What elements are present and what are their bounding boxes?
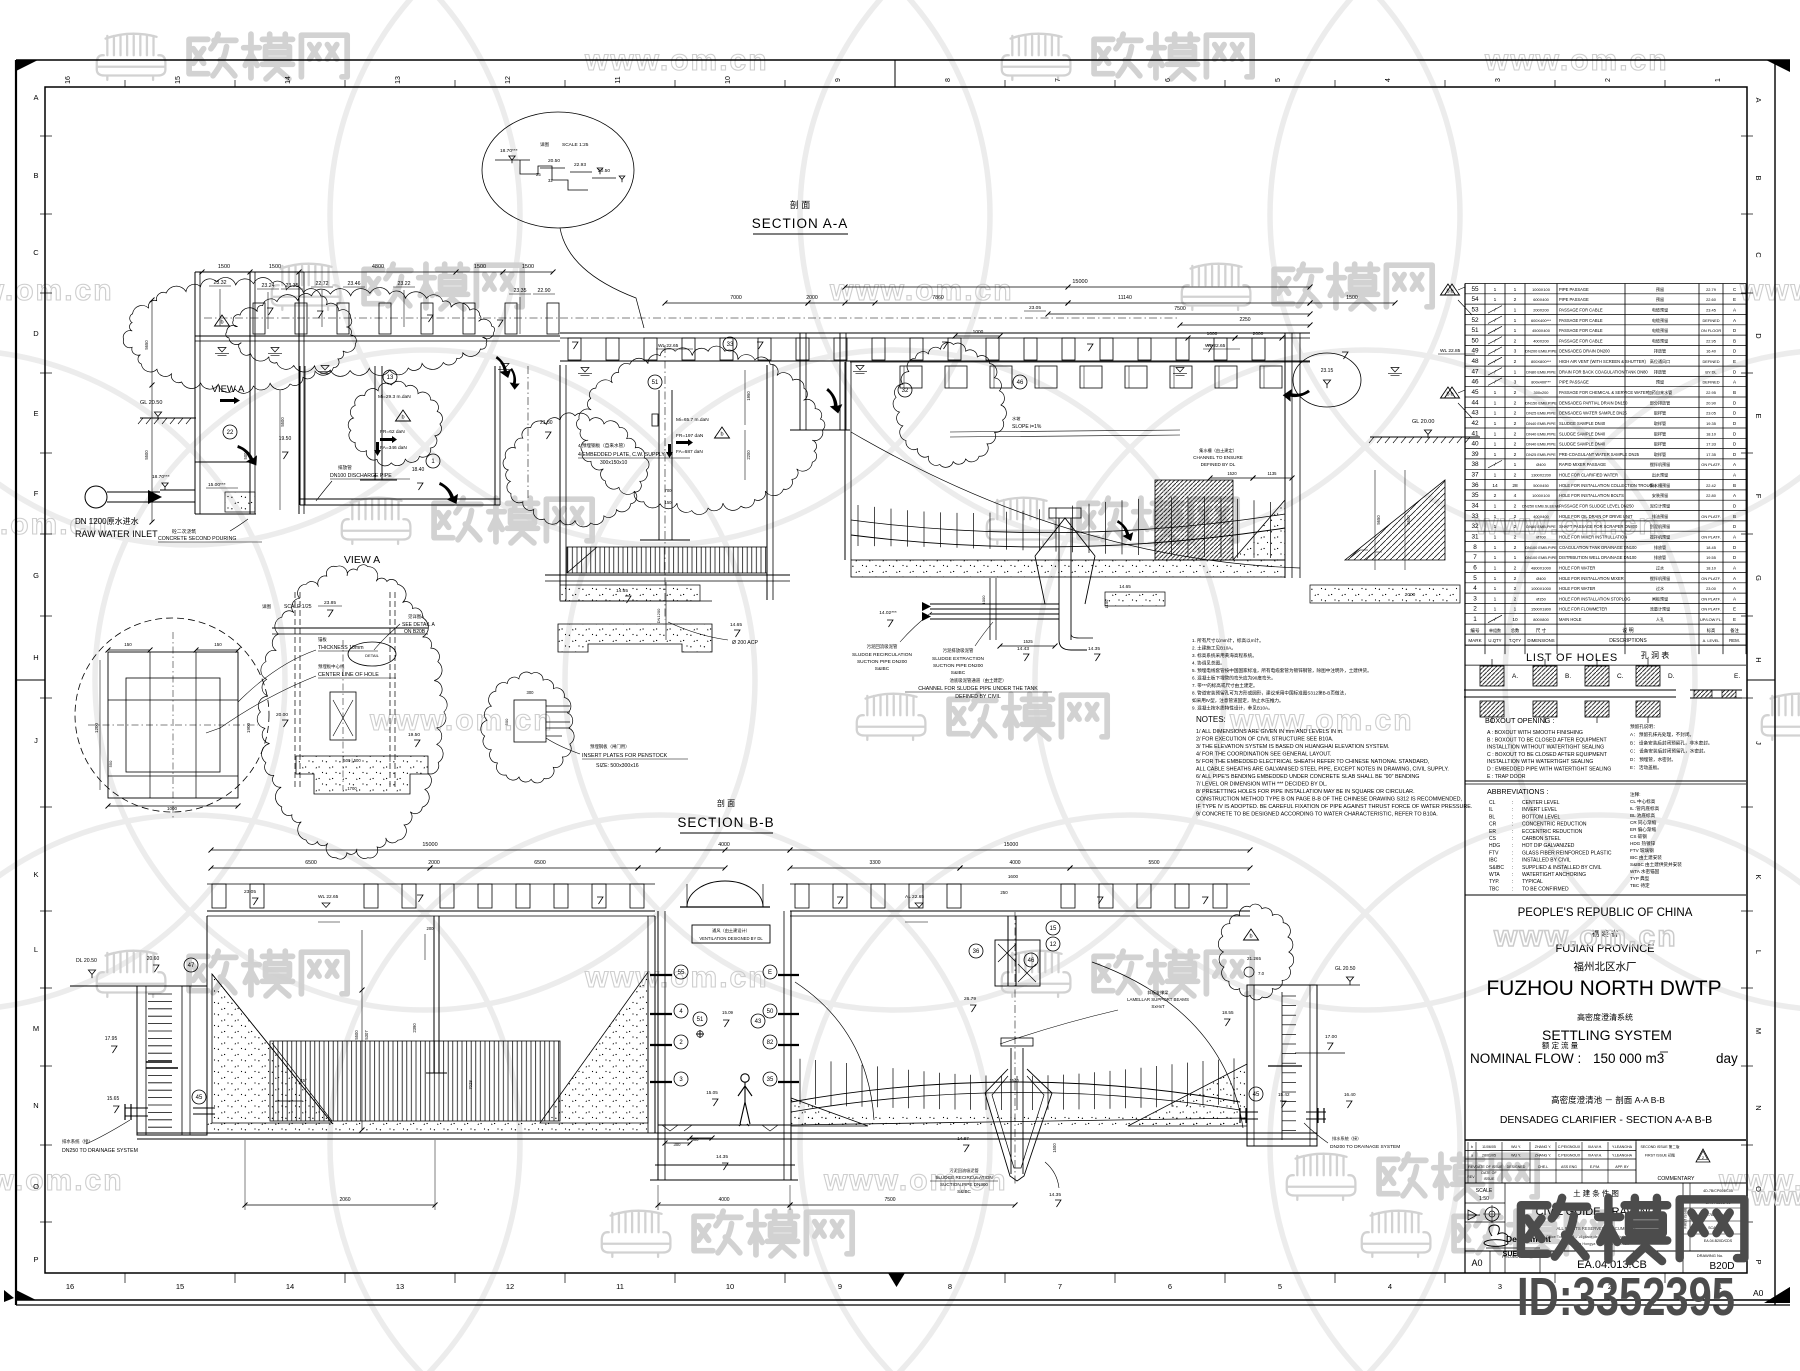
svg-text:HOLE FOR INSTALLATION BOLTS: HOLE FOR INSTALLATION BOLTS — [1559, 493, 1624, 498]
projection symbols — [1468, 1210, 1480, 1220]
svg-text:7500: 7500 — [884, 1197, 895, 1203]
svg-text:SEE DETAIL A: SEE DETAIL A — [402, 622, 435, 628]
svg-text:J: J — [1754, 741, 1763, 745]
outlet box weir teeth — [148, 993, 172, 995]
svg-text:HDG: HDG — [1489, 843, 1500, 849]
svg-text:取样管: 取样管 — [1654, 441, 1666, 447]
svg-text:E: E — [1733, 617, 1736, 622]
svg-text:600X400***: 600X400*** — [1531, 318, 1552, 323]
svg-text:2250: 2250 — [1239, 317, 1250, 323]
svg-text:BY DL: BY DL — [1705, 369, 1717, 374]
svg-text:7.0: 7.0 — [1258, 971, 1265, 976]
B-B mixer shaft pipe — [433, 916, 435, 1073]
svg-text:M: M — [33, 1024, 39, 1033]
svg-text:BOXOUT OPENING :: BOXOUT OPENING : — [1485, 716, 1554, 725]
svg-text:6: 6 — [1165, 78, 1172, 82]
person figure — [738, 1074, 752, 1126]
svg-text:REM.: REM. — [1729, 638, 1740, 643]
svg-text:22: 22 — [227, 430, 234, 436]
svg-text:48: 48 — [1471, 358, 1479, 365]
svg-text:DN200 EMB.PIPE: DN200 EMB.PIPE — [1525, 349, 1557, 354]
svg-text::: : — [1512, 872, 1513, 878]
table triangle marks — [1445, 284, 1460, 295]
hole type E — [1690, 689, 1742, 691]
svg-text:SCALE 1:25: SCALE 1:25 — [562, 142, 589, 148]
svg-text:ER 偏心渐缩: ER 偏心渐缩 — [1630, 826, 1656, 833]
svg-text:55: 55 — [1471, 286, 1479, 293]
svg-text:CONCENTRIC REDUCTION: CONCENTRIC REDUCTION — [1522, 822, 1587, 828]
svg-text:COMMENTARY: COMMENTARY — [1658, 1176, 1696, 1182]
svg-text:PIPE PASSAGE: PIPE PASSAGE — [1559, 380, 1589, 385]
svg-text:1: 1 — [1494, 287, 1497, 293]
svg-text:2: 2 — [1514, 586, 1517, 592]
svg-text:Y.LEANGHA: Y.LEANGHA — [1612, 1154, 1633, 1158]
svg-text:SLUDGE SAMPLE DN40: SLUDGE SAMPLE DN40 — [1559, 431, 1606, 436]
svg-text:DN80 EMB.PIPE: DN80 EMB.PIPE — [1526, 524, 1556, 529]
svg-text:SHAFT PASSAGE FOR SCRAPER DN80: SHAFT PASSAGE FOR SCRAPER DN800 — [1559, 524, 1638, 529]
svg-text:总数: 总数 — [1511, 627, 1520, 634]
svg-text:排放管: 排放管 — [1654, 544, 1666, 550]
svg-text:150: 150 — [124, 642, 132, 647]
svg-text:CONCRETE SECOND POURING: CONCRETE SECOND POURING — [158, 536, 236, 542]
svg-text:SECOND ISSUE 第二版: SECOND ISSUE 第二版 — [1641, 1144, 1680, 1149]
svg-text:2: 2 — [1514, 473, 1517, 479]
svg-text:18.55: 18.55 — [1222, 1010, 1234, 1015]
svg-text:b: b — [720, 432, 723, 438]
svg-text:INSERT PLATES FOR PENSTOCK: INSERT PLATES FOR PENSTOCK — [582, 753, 668, 759]
svg-text:7000: 7000 — [730, 295, 742, 301]
svg-text:4: 4 — [1388, 1282, 1392, 1291]
coagulation tank draft tube — [374, 366, 376, 480]
svg-text:46: 46 — [1017, 380, 1024, 386]
svg-text:www.om.cn: www.om.cn — [823, 1164, 1008, 1197]
svg-text:1: 1 — [1514, 287, 1517, 293]
svg-text:7: 7 — [1473, 554, 1477, 561]
B-B walkway posts left — [207, 883, 655, 885]
svg-text:U.QTY: U.QTY — [1488, 638, 1501, 643]
B-B left sweep arc — [795, 982, 874, 1120]
revision table — [1465, 1150, 1636, 1152]
svg-text:HDG 热镀锌: HDG 热镀锌 — [1630, 840, 1656, 847]
svg-text:REV: REV — [1467, 1175, 1475, 1179]
svg-text:b: b — [1450, 289, 1453, 295]
svg-text:7: 7 — [1055, 78, 1062, 82]
svg-text:1: 1 — [1514, 318, 1517, 324]
svg-text:DENSADEG WATER SAMPLE DN25: DENSADEG WATER SAMPLE DN25 — [1559, 411, 1628, 416]
svg-text:14.35: 14.35 — [716, 1154, 728, 1160]
svg-text:1500: 1500 — [474, 264, 486, 270]
svg-text:23.85: 23.85 — [324, 600, 336, 606]
dim chain A-A left — [202, 271, 553, 273]
svg-text:UP/LOW FL.: UP/LOW FL. — [1700, 617, 1722, 622]
svg-text:DESCRIPTIONS: DESCRIPTIONS — [1609, 638, 1647, 644]
svg-text:预埋钢板（闸门用）: 预埋钢板（闸门用） — [590, 743, 630, 750]
svg-text:1300X2200: 1300X2200 — [1531, 473, 1552, 478]
svg-text:51: 51 — [1471, 327, 1479, 334]
svg-text:WTA 水密锚固: WTA 水密锚固 — [1630, 868, 1660, 875]
svg-text:1: 1 — [1514, 328, 1517, 334]
svg-text:44: 44 — [1471, 399, 1479, 406]
svg-text:DN40 EMB.PIPE: DN40 EMB.PIPE — [1526, 421, 1556, 426]
svg-text:8: 8 — [1473, 544, 1477, 551]
svg-text:ER: ER — [1489, 829, 1496, 835]
svg-text:4500X400: 4500X400 — [1532, 328, 1551, 333]
svg-text:18.45: 18.45 — [1706, 545, 1716, 550]
view A footing stipple — [296, 756, 428, 794]
svg-text:L: L — [34, 945, 38, 954]
B-B tank floor — [137, 1132, 1317, 1134]
svg-text:Ø150: Ø150 — [1536, 596, 1546, 601]
svg-text:WATERTIGHT ANCHORING: WATERTIGHT ANCHORING — [1522, 872, 1586, 878]
svg-text:T.QTY: T.QTY — [1509, 638, 1521, 643]
svg-text:9: 9 — [835, 78, 842, 82]
right stair hatch — [1345, 480, 1445, 560]
svg-text:47: 47 — [1471, 368, 1479, 375]
svg-text::: : — [1512, 850, 1513, 856]
svg-text:800x400***: 800x400*** — [1531, 380, 1551, 385]
svg-text:DEFINED BY DL: DEFINED BY DL — [1201, 462, 1236, 467]
svg-text:16: 16 — [66, 1282, 74, 1291]
svg-text:HOT DIP GALVANIZED: HOT DIP GALVANIZED — [1522, 843, 1575, 849]
svg-text:ALL CABLE SHEATHS ARE GALVANIS: ALL CABLE SHEATHS ARE GALVANISED STEEL P… — [1196, 767, 1449, 773]
svg-text:32: 32 — [548, 178, 553, 183]
svg-text:1900: 1900 — [246, 722, 251, 733]
svg-text:22.95: 22.95 — [1706, 390, 1716, 395]
svg-text:9: 9 — [838, 1282, 842, 1291]
svg-text:1: 1 — [1494, 524, 1497, 530]
B-B right stipple triangles — [791, 1098, 868, 1126]
right bubble 23.15 — [1293, 353, 1361, 407]
svg-text:DENSADEG PARTIAL DRAIN DN150: DENSADEG PARTIAL DRAIN DN150 — [1559, 400, 1628, 405]
svg-text:13: 13 — [395, 76, 402, 84]
svg-text:23.00: 23.00 — [1706, 586, 1717, 591]
svg-text:3. 标高系统采用黄海高程系统。: 3. 标高系统采用黄海高程系统。 — [1192, 652, 1257, 659]
raw water inlet pipe DN1200 — [85, 486, 107, 508]
svg-text:800X800***: 800X800*** — [1531, 359, 1552, 364]
svg-text:1000: 1000 — [1207, 331, 1218, 337]
svg-text:排放管: 排放管 — [1654, 368, 1666, 374]
svg-text:BOTTOM LEVEL: BOTTOM LEVEL — [1522, 814, 1560, 820]
svg-text:DESIGNED: DESIGNED — [1507, 1165, 1526, 1169]
svg-text:5650: 5650 — [144, 340, 149, 350]
svg-text:35: 35 — [767, 1077, 774, 1083]
svg-text:50: 50 — [1471, 337, 1479, 344]
svg-text:22.79: 22.79 — [1706, 287, 1716, 292]
svg-text:标高: 标高 — [1707, 627, 1716, 634]
svg-text:12: 12 — [505, 76, 512, 84]
svg-text:B : BOXOUT TO BE CLOSED AFTER: B : BOXOUT TO BE CLOSED AFTER EQUIPMENT — [1487, 737, 1607, 743]
svg-text:P: P — [1754, 1259, 1763, 1264]
svg-text:32: 32 — [1471, 523, 1479, 530]
svg-text:TYP 典型: TYP 典型 — [1630, 875, 1650, 882]
svg-text:1950: 1950 — [746, 391, 751, 401]
svg-text:47: 47 — [188, 963, 195, 969]
svg-text:预留: 预留 — [1656, 379, 1664, 385]
svg-text:8/ PRESETTING HOLES FOR PIPE: 8/ PRESETTING HOLES FOR PIPE INSTALLATIO… — [1196, 789, 1415, 795]
svg-text:ON PLATF.: ON PLATF. — [1701, 596, 1720, 601]
svg-text:23.05: 23.05 — [1029, 305, 1041, 311]
svg-text:15: 15 — [1050, 926, 1057, 932]
svg-text:6: 6 — [1473, 564, 1477, 571]
svg-text:FA=346 daN: FA=346 daN — [380, 445, 407, 451]
svg-text:SECTION B-B: SECTION B-B — [677, 815, 774, 830]
svg-text:42: 42 — [1471, 420, 1479, 427]
inlet channels walls — [194, 272, 196, 514]
svg-text:见详图A: 见详图A — [408, 613, 424, 620]
svg-text:18.70***: 18.70*** — [500, 148, 518, 154]
svg-text:17.95: 17.95 — [105, 1036, 118, 1042]
svg-text:HOLE FOR INSTALLATION COLLECTI: HOLE FOR INSTALLATION COLLECTION TROUGH — [1559, 483, 1656, 488]
svg-text:37: 37 — [1471, 472, 1479, 479]
svg-text:4000: 4000 — [1009, 860, 1020, 866]
svg-text:b: b — [220, 320, 223, 326]
circled ref 22 — [223, 425, 237, 439]
svg-text:E: E — [1754, 413, 1763, 418]
svg-text:1: 1 — [1494, 555, 1497, 561]
view A detail content — [294, 592, 296, 790]
flocculation tank draft tube — [658, 390, 660, 540]
svg-text:泥位计预留: 泥位计预留 — [1650, 503, 1670, 509]
scale cell — [1465, 1182, 1746, 1184]
svg-text:6: 6 — [1168, 1282, 1172, 1291]
svg-text::: : — [1512, 814, 1513, 820]
svg-text:D: D — [33, 329, 39, 338]
flow arrows right — [1283, 381, 1310, 407]
svg-text:23.05: 23.05 — [1706, 411, 1716, 416]
svg-text:PASSAGE FOR CABLE: PASSAGE FOR CABLE — [1559, 318, 1603, 323]
svg-text:2: 2 — [1514, 535, 1517, 541]
svg-text:1000: 1000 — [973, 329, 984, 335]
shaft dome — [687, 881, 763, 907]
svg-text:14.65: 14.65 — [730, 622, 742, 628]
svg-text:51: 51 — [652, 380, 659, 386]
svg-text:38: 38 — [1471, 461, 1479, 468]
svg-text:2200: 2200 — [746, 450, 751, 460]
svg-text:K: K — [1754, 874, 1763, 879]
svg-text:污泥回流吸泥管: 污泥回流吸泥管 — [867, 643, 898, 650]
svg-text:17.33: 17.33 — [1706, 442, 1716, 447]
svg-text:49: 49 — [1471, 348, 1479, 355]
svg-text:IBC: IBC — [1489, 858, 1498, 864]
svg-text:WU Y.: WU Y. — [1511, 1154, 1521, 1158]
svg-text:5500: 5500 — [354, 1030, 359, 1040]
print mark triangle — [1766, 1287, 1790, 1302]
view A cloud outline — [257, 565, 447, 859]
svg-text:ON PLATF.: ON PLATF. — [1701, 514, 1720, 519]
svg-text:HOLE FOR MIXER INSTRULLATION: HOLE FOR MIXER INSTRULLATION — [1559, 535, 1627, 540]
svg-text:4800X1000: 4800X1000 — [1531, 565, 1552, 570]
sheet outer border — [16, 59, 1790, 61]
svg-text:INSTALLTION WITHOUT WATERTIGHT: INSTALLTION WITHOUT WATERTIGHT SEALING — [1487, 745, 1604, 751]
svg-text:32: 32 — [902, 388, 909, 394]
flow arrow inlet — [234, 445, 260, 465]
svg-text:7500: 7500 — [1174, 306, 1186, 312]
svg-text:SECTION A-A: SECTION A-A — [752, 216, 849, 231]
svg-text:CARBON STEEL: CARBON STEEL — [1522, 836, 1561, 842]
drain box weir — [1281, 992, 1283, 1140]
lower channel left of settling — [989, 578, 991, 640]
scraper suspension rods — [857, 505, 859, 546]
svg-text:INVERT LEVEL: INVERT LEVEL — [1522, 807, 1557, 813]
svg-text:1: 1 — [1514, 307, 1517, 313]
svg-text:污泥回流吸泥管: 污泥回流吸泥管 — [949, 1167, 978, 1174]
svg-text:额 定 流 量: 额 定 流 量 — [1542, 1040, 1579, 1050]
svg-text:电缆预留: 电缆预留 — [1652, 317, 1668, 323]
svg-text:4000: 4000 — [718, 842, 730, 848]
svg-text:14: 14 — [286, 1282, 294, 1291]
svg-text:2: 2 — [1514, 431, 1517, 437]
svg-text:LIST OF HOLES: LIST OF HOLES — [1526, 652, 1618, 664]
svg-text:14.65: 14.65 — [1119, 584, 1131, 589]
svg-text:4: 4 — [1385, 78, 1392, 82]
svg-text:CS: CS — [1489, 836, 1497, 842]
svg-text:VIEW A: VIEW A — [212, 384, 245, 395]
right panel border — [1464, 284, 1466, 1274]
svg-text:HIGH AIR VENT (WITH SCREEN & S: HIGH AIR VENT (WITH SCREEN & SHUTTER) — [1559, 359, 1646, 364]
svg-text:22.80: 22.80 — [1706, 493, 1717, 498]
svg-text:DEFINED: DEFINED — [1702, 359, 1719, 364]
svg-text:2: 2 — [1514, 524, 1517, 530]
svg-text::: : — [1512, 800, 1513, 806]
svg-text:22.90: 22.90 — [538, 288, 551, 294]
svg-text:11140: 11140 — [1118, 295, 1132, 301]
svg-text::: : — [1512, 865, 1513, 871]
svg-text:C.: C. — [1617, 673, 1624, 680]
svg-text:HOLE FOR INSTALLATION STOPLOG: HOLE FOR INSTALLATION STOPLOG — [1559, 596, 1630, 601]
svg-text:www.om.cn: www.om.cn — [829, 274, 1014, 307]
svg-text:18.10: 18.10 — [1706, 565, 1717, 570]
svg-text:DN1200: DN1200 — [656, 608, 661, 623]
svg-text::: : — [1512, 879, 1513, 885]
svg-text:2390: 2390 — [412, 1023, 417, 1033]
svg-text:17.35: 17.35 — [1706, 452, 1716, 457]
svg-text:电缆预留: 电缆预留 — [1652, 337, 1668, 343]
svg-text:31: 31 — [1471, 534, 1479, 541]
svg-text:CR: CR — [1489, 822, 1497, 828]
svg-text:PIPE PASSAGE: PIPE PASSAGE — [1559, 287, 1589, 292]
svg-text:15.09: 15.09 — [722, 1010, 734, 1015]
svg-text:1/ ALL DIMENSIONS ARE GIVEN I: 1/ ALL DIMENSIONS ARE GIVEN IN mm AND LE… — [1196, 729, 1343, 735]
svg-text:26.79: 26.79 — [964, 996, 976, 1002]
svg-text:NOMINAL FLOW :: NOMINAL FLOW : — [1470, 1051, 1581, 1066]
svg-text:CHANNEL FOR SLUDGE PIPE UNDER: CHANNEL FOR SLUDGE PIPE UNDER THE TANK — [918, 686, 1038, 692]
svg-text:PASSAGE FOR SLUDGE LEVEL DN250: PASSAGE FOR SLUDGE LEVEL DN250 — [1559, 504, 1634, 509]
svg-text:高位通风口: 高位通风口 — [1650, 358, 1670, 364]
svg-text:EA.04.B20D/CDS: EA.04.B20D/CDS — [1704, 1239, 1733, 1243]
svg-text:15.65: 15.65 — [107, 1096, 120, 1102]
B-B right suspension rods — [799, 1059, 801, 1105]
svg-text:1135: 1135 — [1267, 471, 1277, 476]
svg-text:PASSAGE FOR CHEMICAL & SERVICE: PASSAGE FOR CHEMICAL & SERVICE WATER — [1559, 390, 1649, 395]
svg-text:DN25 EMB.PIPE: DN25 EMB.PIPE — [1526, 411, 1556, 416]
svg-text:13: 13 — [396, 1282, 404, 1291]
stipple triangle right settling — [1233, 500, 1285, 560]
svg-text:SLUDGE SAMPLE DN40: SLUDGE SAMPLE DN40 — [1559, 442, 1606, 447]
B-B right centerline — [1014, 912, 1016, 1185]
svg-text:2: 2 — [1514, 411, 1517, 417]
svg-text:电缆预留: 电缆预留 — [1652, 306, 1668, 312]
svg-text:Ø400: Ø400 — [1536, 576, 1546, 581]
svg-text:BL: BL — [1489, 814, 1495, 820]
fold mark top-left — [16, 60, 38, 71]
svg-text:A： 预留孔抹光处理，不封闭。: A： 预留孔抹光处理，不封闭。 — [1630, 731, 1694, 738]
svg-text:1: 1 — [1473, 616, 1477, 623]
svg-text:FIRST ISSUE: FIRST ISSUE — [1684, 1207, 1688, 1229]
svg-text:Ø 200 ACP: Ø 200 ACP — [732, 640, 758, 646]
svg-text:2: 2 — [1514, 452, 1517, 458]
svg-text:高密度澄清系统: 高密度澄清系统 — [1577, 1012, 1633, 1022]
svg-text:15000: 15000 — [1072, 279, 1087, 285]
svg-text:1000: 1000 — [167, 806, 178, 811]
inlet chamber stipple — [225, 492, 255, 512]
svg-text:搅拌机预留: 搅拌机预留 — [1650, 461, 1670, 467]
svg-text:34: 34 — [1471, 503, 1479, 510]
svg-text:IBC 由土建安装: IBC 由土建安装 — [1630, 854, 1662, 861]
sludge suction pipes — [930, 603, 1059, 605]
svg-text:编号: 编号 — [1470, 627, 1480, 634]
svg-text:HOLE FOR CLARIFIED WATER: HOLE FOR CLARIFIED WATER — [1559, 473, 1618, 478]
svg-text:2060: 2060 — [339, 1197, 350, 1203]
svg-text:污泥排放吸泥管: 污泥排放吸泥管 — [943, 647, 974, 654]
svg-text:DL 20.50: DL 20.50 — [76, 958, 97, 964]
svg-text:5307: 5307 — [364, 1030, 369, 1040]
svg-text:K: K — [33, 870, 38, 879]
svg-text:2: 2 — [1514, 442, 1517, 448]
svg-text:DN40 EMB.PIPE: DN40 EMB.PIPE — [1526, 442, 1556, 447]
svg-text:剖 面: 剖 面 — [717, 798, 735, 808]
svg-text:DEFINED BY CIVIL: DEFINED BY CIVIL — [955, 694, 1001, 700]
svg-text:FR=62 daN: FR=62 daN — [380, 429, 405, 435]
svg-text:搅拌机预留: 搅拌机预留 — [1650, 575, 1670, 581]
svg-text:DN100 EMB.PIPE: DN100 EMB.PIPE — [1525, 555, 1557, 560]
svg-text:600X400: 600X400 — [1533, 297, 1549, 302]
svg-text:150: 150 — [665, 500, 673, 505]
svg-text:1: 1 — [1514, 607, 1517, 613]
settling tank scraper chords — [851, 528, 1285, 547]
svg-text:GL 20.00: GL 20.00 — [1412, 419, 1434, 425]
svg-text:FIRST ISSUE 初版: FIRST ISSUE 初版 — [1645, 1153, 1676, 1158]
svg-text:预埋板中心线: 预埋板中心线 — [318, 663, 345, 670]
svg-text:排放管: 排放管 — [1654, 554, 1666, 560]
svg-text:B.: B. — [1565, 673, 1571, 680]
svg-text:Ø700: Ø700 — [1536, 535, 1546, 540]
svg-text:SLUDGE RECIRCULATION: SLUDGE RECIRCULATION — [935, 1175, 992, 1180]
svg-text:水坡: 水坡 — [1012, 415, 1021, 422]
svg-text:8: 8 — [948, 1282, 952, 1291]
svg-text:尺 寸: 尺 寸 — [1536, 627, 1547, 634]
svg-text:S&IBC: S&IBC — [957, 1189, 971, 1194]
svg-text:排水系统（接）: 排水系统（接） — [1332, 1135, 1361, 1142]
svg-text:5500: 5500 — [144, 450, 149, 460]
svg-text:1600: 1600 — [1008, 874, 1019, 879]
table header — [1465, 633, 1746, 635]
svg-text:1: 1 — [1494, 535, 1497, 541]
svg-text:DIMENSIONS: DIMENSIONS — [1527, 638, 1554, 643]
B-B left height dim — [361, 930, 363, 1130]
svg-text:C: C — [1754, 252, 1763, 258]
svg-text:53: 53 — [1471, 306, 1479, 313]
svg-text:14.02***: 14.02*** — [879, 610, 897, 616]
svg-text:E: E — [1733, 297, 1736, 302]
svg-text:SxHxT: SxHxT — [1151, 1004, 1164, 1009]
svg-text:PEOPLE'S REPUBLIC OF CHINA: PEOPLE'S REPUBLIC OF CHINA — [1518, 907, 1693, 919]
svg-text:D.: D. — [1668, 673, 1675, 680]
svg-text:6500: 6500 — [534, 860, 546, 866]
svg-text:16.40: 16.40 — [1344, 1092, 1356, 1097]
svg-text:LAMELLAR SUPPORT BEAMS: LAMELLAR SUPPORT BEAMS — [1127, 997, 1189, 1002]
svg-text:高密度澄清池 － 剖面 A-A B-B: 高密度澄清池 － 剖面 A-A B-B — [1551, 1095, 1665, 1105]
svg-text:1: 1 — [1514, 555, 1517, 561]
